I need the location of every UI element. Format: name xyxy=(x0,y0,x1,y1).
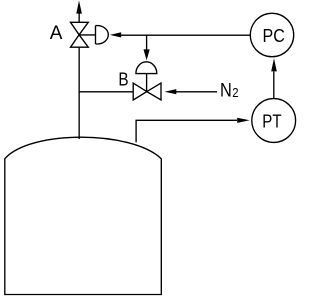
wire: pipe from tank top to valve A xyxy=(78,47,80,139)
wire: line from tank pipe to valve B xyxy=(79,91,133,93)
arrow: signal into actuator B xyxy=(144,49,150,60)
svg-text:2: 2 xyxy=(232,85,238,100)
svg-text:N: N xyxy=(220,79,232,101)
tank (vessel) xyxy=(5,137,162,294)
wire: tank tap to PT xyxy=(136,120,237,142)
svg-text:PT: PT xyxy=(262,110,281,131)
wire: stem actuator B to valve B xyxy=(146,74,148,92)
actuator on valve B (diaphragm dome) xyxy=(136,62,157,74)
wire: signal PT to PC xyxy=(273,72,275,99)
arrow: into PC xyxy=(271,58,277,71)
valve A (control valve body) xyxy=(71,22,89,47)
arrow: N2 into valve B xyxy=(165,89,177,94)
actuator on valve A (D shape) xyxy=(96,26,109,44)
wire: signal branch down to actuator B xyxy=(146,35,148,50)
svg-text:PC: PC xyxy=(263,25,285,46)
wire: N2 supply line xyxy=(176,91,218,93)
svg-text:B: B xyxy=(118,68,128,89)
wire: vent line above valve A xyxy=(78,13,80,23)
valve B (control valve body) xyxy=(133,83,161,100)
instrument PC (pressure controller) xyxy=(250,13,293,56)
instrument PT (pressure transmitter) xyxy=(252,99,296,143)
arrow: signal into actuator A xyxy=(110,32,121,37)
wire: stem valve A to actuator xyxy=(79,34,95,36)
svg-text:A: A xyxy=(50,23,63,44)
arrow: vent up xyxy=(76,1,82,14)
arrow: into PT xyxy=(237,118,250,123)
wire: signal line from PC to actuator A xyxy=(121,34,251,36)
